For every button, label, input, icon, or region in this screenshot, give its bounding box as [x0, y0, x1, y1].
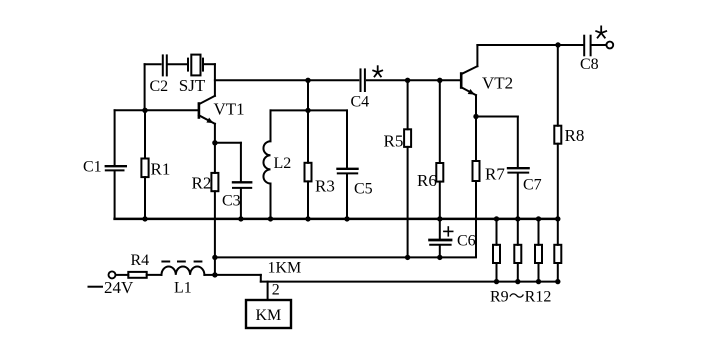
- svg-text:L1: L1: [174, 280, 192, 297]
- node rail R3: [305, 216, 310, 221]
- resistor R3: [305, 110, 335, 218]
- capacitor C7: [508, 117, 542, 219]
- svg-text:C8: C8: [580, 56, 599, 73]
- inductor L1: [162, 267, 215, 297]
- node VT1 base junction: [142, 108, 147, 113]
- wire bottom supply line: [261, 281, 558, 283]
- node R8 top: [555, 42, 560, 47]
- wire C2 loop right side: [214, 64, 216, 96]
- node bottom R11: [536, 279, 541, 284]
- node rail R6 C6: [437, 216, 442, 221]
- svg-text:C1: C1: [83, 159, 102, 176]
- resistor R8: [554, 45, 584, 219]
- capacitor C6: [430, 219, 476, 258]
- node rail-tank: [305, 78, 310, 83]
- svg-text:L2: L2: [274, 155, 292, 172]
- svg-text:VT2: VT2: [482, 74, 513, 93]
- wire bottom rail: [115, 218, 558, 221]
- svg-text:R4: R4: [131, 252, 150, 269]
- resistor R11: [535, 219, 542, 282]
- resistor R7: [440, 117, 506, 258]
- node bottom R12: [555, 279, 560, 284]
- capacitor C2: [145, 55, 186, 95]
- wire VT2 collector top: [477, 44, 582, 46]
- svg-text:R2: R2: [192, 174, 212, 193]
- svg-text:R8: R8: [565, 126, 585, 145]
- transistor VT1: [199, 96, 245, 143]
- node rail R8 R12: [555, 216, 560, 221]
- capacitor C1: [83, 110, 126, 219]
- node rail R11: [536, 216, 541, 221]
- wire main collector rail: [215, 79, 358, 81]
- switch contact 1KM: [215, 260, 301, 282]
- wire tank top: [271, 109, 348, 111]
- svg-text:R7: R7: [485, 165, 505, 184]
- node rail R6: [437, 78, 442, 83]
- node rail R9: [494, 216, 499, 221]
- input terminal -24V: [109, 271, 116, 278]
- wire emitter to C7: [476, 116, 518, 118]
- wire negative supply line: [215, 256, 440, 258]
- node supply C6: [437, 255, 442, 260]
- resistor R9: [493, 219, 500, 282]
- node rail R1: [142, 216, 147, 221]
- svg-text:R5: R5: [384, 132, 404, 151]
- node rail L2: [268, 216, 273, 221]
- node tank top: [305, 108, 310, 113]
- node supply R5: [405, 255, 410, 260]
- node rail C7 R10: [515, 216, 520, 221]
- node bottom R10: [515, 279, 520, 284]
- node rail C5: [344, 216, 349, 221]
- svg-text:SJT: SJT: [179, 76, 206, 95]
- svg-text:2: 2: [272, 282, 280, 299]
- wire emitter to C3: [215, 142, 241, 144]
- core dashes above L1: [162, 261, 201, 263]
- svg-text:R1: R1: [151, 160, 171, 179]
- svg-text:R9～R12: R9～R12: [490, 289, 551, 306]
- resistor R1: [141, 110, 170, 219]
- svg-text:24V: 24V: [104, 278, 134, 297]
- svg-text:1KM: 1KM: [268, 260, 302, 277]
- star mark at C8: [596, 26, 606, 37]
- svg-text:R3: R3: [315, 177, 335, 196]
- node VT2 emitter junction: [473, 114, 478, 119]
- inductor L2: [263, 110, 291, 218]
- relay coil KM: [246, 282, 291, 328]
- node rail C3: [238, 216, 243, 221]
- capacitor C4: [351, 69, 370, 110]
- transistor VT2: [461, 45, 513, 117]
- wire base net horizontal: [115, 109, 198, 111]
- svg-text:KM: KM: [256, 307, 282, 324]
- svg-text:VT1: VT1: [214, 100, 245, 119]
- svg-text:C2: C2: [150, 78, 169, 95]
- resistor R12: [554, 219, 561, 282]
- svg-text:C6: C6: [457, 233, 476, 250]
- label -24V: [89, 286, 103, 288]
- wire rail from C4 to VT2 base: [367, 79, 460, 81]
- star mark at C4: [373, 66, 382, 76]
- node rail R5: [405, 78, 410, 83]
- node supply R2: [212, 255, 217, 260]
- capacitor C5: [338, 110, 373, 218]
- resistor R2: [192, 143, 219, 275]
- resistor R10: [514, 219, 521, 282]
- resistor R5: [384, 80, 412, 257]
- resistor R6: [417, 80, 443, 219]
- svg-text:R6: R6: [417, 171, 437, 190]
- node L1 junction: [212, 272, 217, 277]
- node VT1 emitter junction: [212, 140, 217, 145]
- output terminal: [606, 42, 613, 49]
- crystal SJT: [179, 55, 215, 95]
- svg-text:C4: C4: [351, 94, 370, 111]
- capacitor C3: [222, 143, 251, 219]
- svg-text:C3: C3: [222, 193, 241, 210]
- node bottom R9: [494, 279, 499, 284]
- svg-text:C5: C5: [354, 181, 373, 198]
- resistor R4: [116, 252, 162, 278]
- wire C2 loop left side: [144, 64, 146, 110]
- capacitor C8: [580, 36, 606, 73]
- svg-text:C7: C7: [523, 177, 542, 194]
- wire rail to tank drop: [307, 80, 309, 110]
